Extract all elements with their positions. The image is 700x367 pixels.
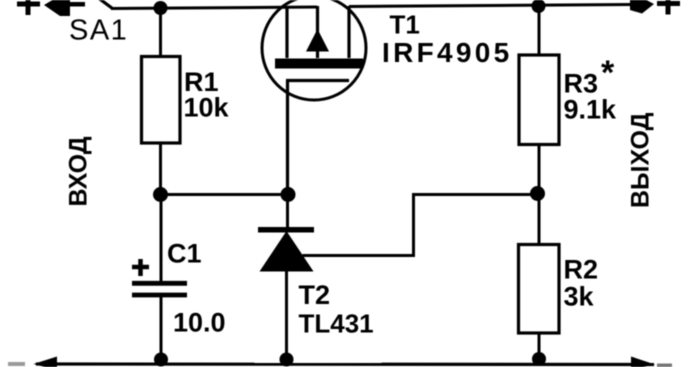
wire R2 bottom (538, 333, 541, 364)
T1 body arrow (306, 29, 329, 52)
T1 body lead (316, 6, 319, 33)
input terminal arrow (44, 0, 85, 16)
bottom-left minus mark (8, 362, 25, 366)
switch SA1 (93, 0, 113, 9)
C1 polarity plus (132, 259, 149, 276)
T1 source lead (285, 7, 288, 58)
resistor R1 (142, 57, 181, 144)
svg-text:9.1k: 9.1k (564, 95, 618, 125)
svg-text:*: * (601, 54, 615, 92)
T2 anode triangle (260, 231, 314, 272)
svg-text:TL431: TL431 (299, 309, 374, 339)
svg-text:10.0: 10.0 (173, 308, 226, 338)
bottom-right minus mark (657, 364, 672, 367)
wire R2 top (538, 194, 541, 245)
svg-text:R2: R2 (564, 255, 599, 285)
svg-text:IRF4905: IRF4905 (382, 37, 513, 68)
T1 body stub (316, 50, 319, 58)
T2 reference wire (303, 195, 538, 256)
svg-text:C1: C1 (167, 238, 202, 268)
capacitor C1 (132, 283, 187, 295)
T1 drain lead (347, 6, 350, 58)
output plus terminal (657, 0, 680, 15)
node junction top-right (532, 0, 546, 13)
wire C1 top (160, 195, 163, 282)
output minus arrow right (631, 357, 655, 367)
svg-text:ВЫХОД: ВЫХОД (627, 112, 655, 208)
node junction bottom R2 (532, 352, 546, 366)
svg-text:10k: 10k (184, 92, 230, 122)
transistor T1 circle (262, 0, 366, 100)
svg-text:T2: T2 (299, 280, 331, 310)
output minus arrow left (34, 357, 58, 367)
shunt regulator T2 cathode bar (258, 227, 314, 233)
output terminal arrow (630, 0, 654, 14)
T1 channel bar (275, 59, 363, 69)
node junction middle-left (153, 187, 168, 202)
node junction middle-right (530, 186, 545, 201)
wire middle horizontal (161, 193, 289, 196)
wire R1 bottom (159, 143, 162, 194)
wire gate down (286, 81, 289, 195)
svg-text:3k: 3k (564, 282, 595, 312)
input plus terminal (17, 0, 40, 15)
wire T2 anode down (285, 271, 288, 364)
svg-text:ВХОД: ВХОД (65, 136, 93, 206)
node junction bottom T2 (280, 353, 294, 367)
wire R3 top (538, 6, 541, 56)
svg-text:SA1: SA1 (69, 15, 128, 47)
node junction gate (281, 187, 296, 202)
resistor R2 (519, 245, 560, 334)
wire C1 bottom (160, 295, 163, 364)
wire R1 top (159, 8, 162, 57)
wire TL431 cathode (286, 195, 289, 230)
node junction top-left (154, 1, 168, 15)
resistor R3 (519, 55, 559, 145)
svg-text:T1: T1 (390, 10, 420, 40)
wire bottom rail (36, 362, 654, 366)
node junction bottom C1 (154, 353, 168, 367)
wire top rail right (349, 5, 632, 7)
T1 gate electrode (286, 79, 349, 82)
wire R3 bottom (538, 145, 541, 195)
wire top rail left (111, 7, 317, 9)
